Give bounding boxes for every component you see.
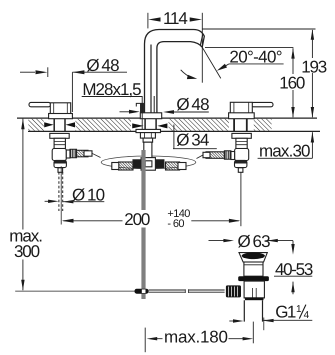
spout outlet reference line bbox=[205, 47, 293, 49]
dim max180 bbox=[144, 328, 146, 353]
svg-text:Ø 48: Ø 48 bbox=[86, 56, 119, 75]
center T-block bbox=[141, 158, 155, 171]
right valve mounting plate bbox=[232, 133, 251, 138]
svg-text:G1: G1 bbox=[275, 303, 296, 322]
center hose end fitting left bbox=[112, 163, 119, 170]
horizontal rod bbox=[149, 290, 225, 292]
right valve centerline extension bbox=[240, 173, 242, 227]
spout column middle line bbox=[150, 45, 152, 113]
center mounting plate bbox=[136, 129, 161, 132]
right hose connector bbox=[203, 152, 210, 157]
Ø34 leader bbox=[173, 125, 217, 149]
left valve shank through deck bbox=[54, 119, 65, 131]
svg-text:193: 193 bbox=[301, 57, 327, 76]
dim max300 line bbox=[22, 119, 24, 291]
deck hatching bbox=[28, 119, 271, 131]
svg-text:1: 1 bbox=[296, 304, 302, 315]
left valve body inner lines bbox=[54, 103, 68, 116]
dim max30 bbox=[311, 132, 313, 158]
drain centerline bbox=[252, 322, 254, 344]
right valve body bbox=[230, 102, 252, 115]
dim 160 line bbox=[292, 48, 294, 117]
rod clamp bbox=[135, 289, 149, 294]
right valve lever bbox=[252, 102, 274, 106]
spout outer profile bbox=[145, 29, 205, 113]
M28x1,5 underline + leader bbox=[82, 97, 143, 130]
svg-text:200: 200 bbox=[124, 210, 150, 229]
center shank through deck bbox=[145, 119, 156, 130]
hose loop ellipse bbox=[101, 156, 196, 169]
dim Ø48 center arrows bbox=[120, 111, 131, 113]
svg-text:160: 160 bbox=[279, 74, 305, 93]
dim 114 extension left bbox=[147, 13, 149, 29]
left hose line to loop bbox=[92, 153, 101, 157]
spout escutcheon bbox=[140, 113, 161, 119]
left valve outlet nipple bbox=[66, 150, 70, 158]
svg-text:Ø 34: Ø 34 bbox=[176, 130, 209, 149]
spout top reference line bbox=[202, 28, 315, 30]
dim 193 line bbox=[311, 30, 313, 117]
rod coupling break bbox=[185, 289, 188, 293]
left valve base bbox=[49, 114, 73, 119]
dim 114 extension right bbox=[201, 13, 203, 83]
left hose connector bbox=[84, 151, 92, 156]
center neck bbox=[143, 138, 153, 142]
left valve bottom stub bbox=[58, 168, 63, 173]
center mounting nut bbox=[140, 133, 155, 139]
left valve hose braid bbox=[77, 150, 89, 157]
dim G1 1/4 bbox=[229, 320, 235, 322]
right hose line to loop bbox=[197, 155, 204, 159]
svg-text:M28x1,5: M28x1,5 bbox=[82, 80, 141, 99]
svg-text:Ø 10: Ø 10 bbox=[72, 186, 105, 205]
spout inner profile bbox=[157, 42, 202, 113]
center hose end fitting right bbox=[178, 163, 186, 170]
angle leader arrow bbox=[223, 64, 229, 67]
drain bottom band bbox=[245, 297, 264, 300]
center shank bbox=[144, 142, 152, 158]
svg-text:max.30: max.30 bbox=[259, 142, 310, 161]
right valve hose braid bbox=[206, 152, 224, 159]
spout column inner line bbox=[153, 96, 155, 113]
center hose nut right bbox=[155, 160, 164, 168]
Ø10 pipe dashed bbox=[59, 172, 63, 211]
left valve bottom nut bbox=[54, 160, 66, 167]
drain top dark lens bbox=[242, 253, 265, 260]
right valve bottom stub bbox=[238, 168, 243, 173]
dim Ø63 bbox=[209, 240, 294, 242]
text 200 background bbox=[123, 210, 152, 228]
left valve deck hole arrows bbox=[44, 122, 75, 127]
right valve base bbox=[229, 113, 255, 119]
svg-text:Ø 48: Ø 48 bbox=[176, 95, 209, 114]
center hose nut left bbox=[133, 160, 141, 168]
svg-text:40-53: 40-53 bbox=[275, 260, 313, 279]
spout tip lip line bbox=[200, 35, 202, 46]
drain flange bbox=[239, 253, 267, 262]
left valve lower body bbox=[52, 149, 66, 161]
dim 200 line bbox=[63, 220, 239, 222]
left valve body bbox=[50, 103, 70, 116]
svg-text:300: 300 bbox=[14, 242, 40, 261]
center hose braid left bbox=[119, 162, 134, 170]
angle line bbox=[202, 47, 221, 78]
svg-text:max.180: max.180 bbox=[164, 328, 228, 347]
svg-text:4: 4 bbox=[304, 310, 310, 321]
right valve threaded shank bbox=[236, 138, 247, 148]
center deck hole arrows bbox=[132, 123, 167, 128]
svg-text:114: 114 bbox=[163, 9, 187, 28]
right valve outlet nipple bbox=[231, 152, 235, 160]
reference baseline bbox=[15, 290, 134, 292]
deck top line bbox=[17, 117, 317, 119]
right valve shank through deck bbox=[234, 119, 247, 131]
dim Ø48 left underline + extension bbox=[72, 72, 127, 112]
right valve lower body bbox=[235, 149, 249, 161]
deck bottom line bbox=[28, 130, 320, 132]
svg-text:Ø 63: Ø 63 bbox=[238, 232, 271, 251]
left valve mounting plate bbox=[50, 133, 69, 138]
right valve bottom nut bbox=[235, 160, 247, 167]
left valve threaded shank bbox=[54, 138, 65, 148]
dim 40-53 bbox=[292, 241, 294, 295]
drain body bbox=[244, 262, 263, 276]
left valve lever bbox=[29, 102, 51, 106]
pop-up rod bbox=[141, 150, 145, 299]
drain seal bbox=[238, 276, 269, 281]
right valve body inner lines bbox=[234, 102, 249, 115]
dim 114 arrows bbox=[148, 17, 202, 21]
angle arc bbox=[181, 70, 193, 78]
drain pivot knob bbox=[226, 285, 241, 297]
center hose braid right bbox=[166, 162, 180, 170]
left valve centerline bbox=[60, 166, 62, 224]
svg-text:- 60: - 60 bbox=[167, 218, 184, 230]
Ø10 arrows/underline bbox=[45, 200, 51, 202]
dim Ø48 left: arrow and tick bbox=[20, 71, 35, 73]
spout retaining clip bbox=[136, 103, 144, 106]
drain tailpipe bbox=[244, 300, 262, 321]
tailpipe right extension bbox=[263, 318, 265, 331]
drain lower body bbox=[244, 281, 264, 298]
